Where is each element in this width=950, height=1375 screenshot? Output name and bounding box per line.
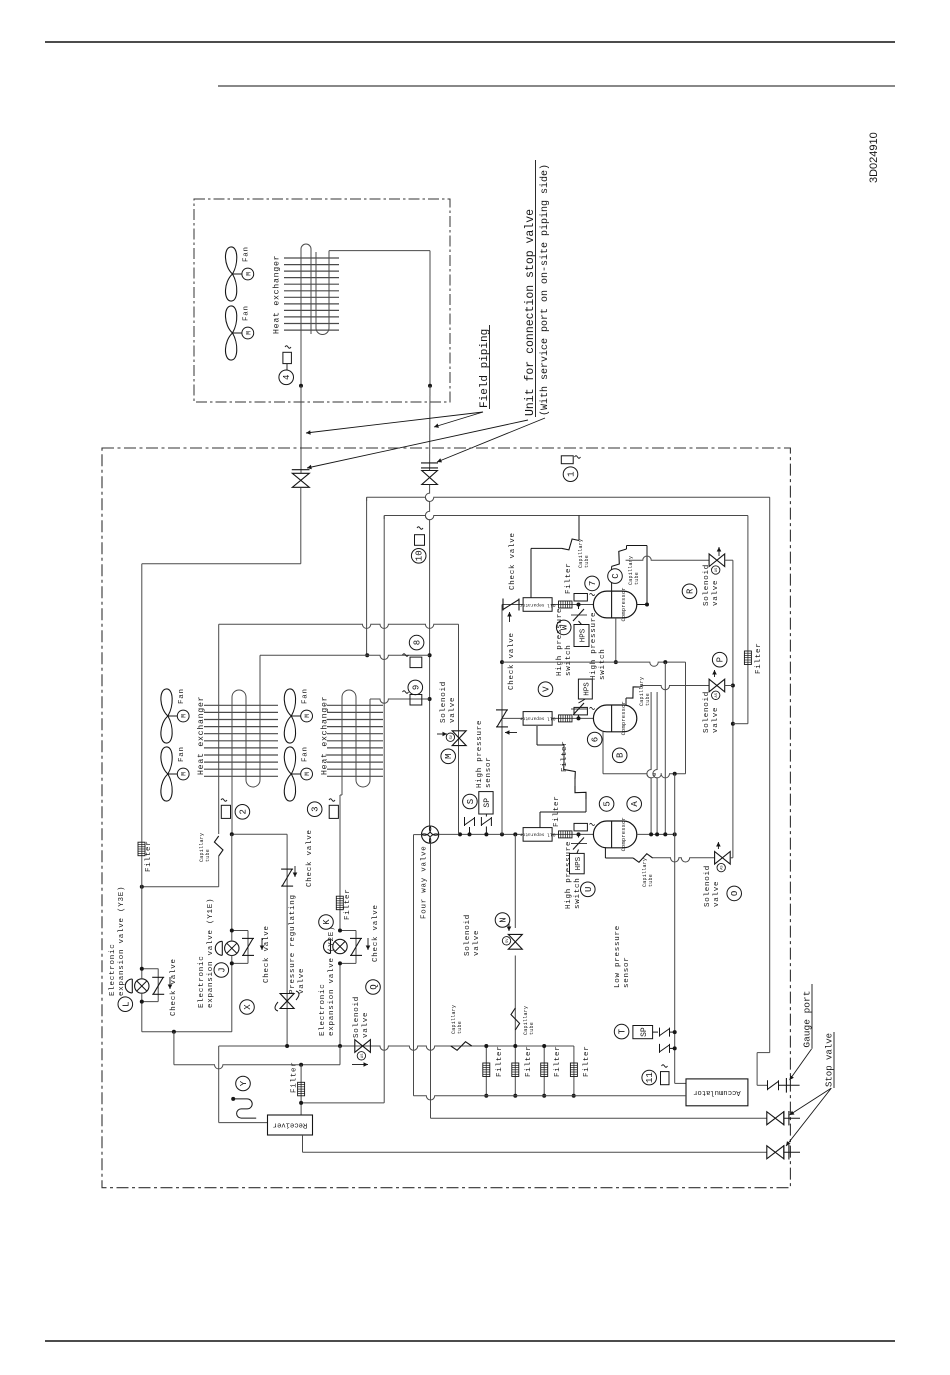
solenoid R feed pipe — [626, 556, 709, 560]
label pressure regulating valve — [289, 894, 306, 994]
riser from upper discharge pipe — [366, 497, 368, 655]
svg-text:sensor: sensor — [623, 956, 631, 988]
filter branch 3 — [541, 1044, 562, 1098]
right hx gas pipe — [370, 699, 430, 705]
solenoid N branch pipe — [514, 834, 516, 1095]
electronic expansion valve Y3E — [125, 969, 149, 1032]
field gas pipe to four way valve — [425, 485, 429, 826]
svg-text:Oil separator: Oil separator — [519, 602, 555, 608]
eev Y1E bypass check valve — [230, 929, 254, 966]
svg-text:Filter: Filter — [496, 1045, 504, 1077]
sensor circle 9 — [408, 680, 423, 695]
svg-text:M: M — [245, 272, 252, 276]
label stop valve — [825, 1032, 835, 1088]
svg-text:10: 10 — [415, 550, 425, 561]
sensor circle R — [682, 584, 697, 599]
compressor A — [593, 817, 636, 851]
svg-text:AS: AS — [715, 568, 719, 572]
indoor pipe junction dot right — [428, 384, 432, 388]
eev Y3E bypass check valve — [140, 967, 164, 1004]
arrow field piping to gas pipe — [434, 412, 483, 428]
suction stop valve pipe — [431, 1117, 767, 1119]
filter right branch — [744, 642, 763, 674]
solenoid valve R — [709, 547, 725, 574]
filter liquid line — [138, 840, 153, 872]
label filter C — [565, 562, 573, 594]
filter right hx — [336, 888, 352, 920]
sensor 10 thermistor — [415, 527, 425, 546]
right heat exchanger fins — [327, 705, 383, 776]
label capillary tube A — [642, 858, 654, 887]
indoor unit dash-dot box — [194, 199, 450, 402]
capillary tube A discharge — [605, 847, 652, 862]
svg-text:T: T — [618, 1028, 628, 1034]
svg-text:Fan: Fan — [178, 688, 186, 704]
feed header junction dot a — [458, 832, 462, 836]
indoor fan 1 — [225, 246, 253, 301]
compressor suction pipe B — [502, 717, 593, 719]
arrow stop valve 2 — [786, 1088, 831, 1146]
oil equalize riser — [685, 662, 687, 774]
sensor circle J — [214, 963, 229, 978]
page footer rule — [45, 1340, 895, 1342]
svg-text:3D024910: 3D024910 — [868, 132, 880, 183]
label Unit for connection stop valve — [524, 160, 551, 417]
svg-text:M: M — [444, 754, 454, 759]
svg-text:M: M — [181, 714, 188, 718]
svg-text:valve: valve — [298, 968, 306, 994]
compressor A suction right pipe — [637, 832, 677, 836]
svg-text:Electronic: Electronic — [109, 943, 117, 996]
left hx outlet pipe — [232, 833, 287, 835]
check valve compressor B — [496, 710, 517, 735]
svg-text:Low pressure: Low pressure — [614, 925, 622, 988]
svg-text:Y: Y — [239, 1080, 249, 1086]
filter branch pipe — [733, 516, 748, 724]
discharge header pipe — [501, 605, 503, 835]
riser from lower discharge pipe — [383, 516, 385, 1103]
label high pressure switch C — [590, 612, 607, 680]
svg-text:valve: valve — [362, 1012, 370, 1038]
svg-text:11: 11 — [645, 1072, 655, 1083]
label capillary tube C2 — [628, 556, 640, 585]
check valve compressor C — [503, 599, 519, 623]
svg-text:Check valve: Check valve — [306, 829, 314, 887]
svg-text:Compressor: Compressor — [621, 817, 627, 851]
svg-text:High pressure: High pressure — [476, 720, 484, 788]
svg-text:Check valve: Check valve — [372, 904, 380, 962]
sensor Y pigtail — [231, 1097, 256, 1118]
svg-text:HPS: HPS — [575, 856, 583, 870]
svg-text:S: S — [466, 799, 476, 804]
filter C — [559, 601, 573, 608]
outdoor fan 2 left — [161, 746, 189, 801]
indoor liquid pipe down — [300, 386, 302, 473]
oil return capillary C — [531, 516, 579, 599]
svg-text:Check valve: Check valve — [170, 958, 178, 1016]
liquid stop valve — [767, 1145, 800, 1160]
arrow stop valve label to liquid stop valve — [307, 420, 528, 469]
svg-text:(With service port on on-site: (With service port on on-site piping sid… — [539, 164, 551, 416]
label high pressure switch A — [565, 841, 582, 909]
label low pressure sensor — [614, 925, 631, 988]
pipe O to column — [730, 857, 733, 859]
svg-text:2: 2 — [238, 809, 248, 814]
solenoid valve Q — [352, 1040, 370, 1067]
feed header junction dot c — [484, 832, 488, 836]
svg-text:9: 9 — [411, 685, 421, 690]
svg-text:V: V — [542, 686, 552, 692]
filter branch 2 — [512, 1044, 533, 1098]
service port stub b — [465, 817, 475, 834]
sensor circle B — [612, 748, 627, 763]
gauge port symbol — [768, 1078, 800, 1093]
discharge pipe upper — [367, 497, 770, 501]
junction dot hps A — [577, 832, 581, 836]
svg-text:Filter: Filter — [554, 1045, 562, 1077]
svg-text:O: O — [730, 891, 740, 896]
junction dot receiver branch — [299, 1063, 303, 1067]
svg-text:valve: valve — [712, 707, 720, 733]
capillary riser c — [663, 662, 667, 836]
svg-text:Solenoid: Solenoid — [703, 691, 711, 733]
label capillary tube C1 — [578, 539, 590, 568]
receiver filter pipe — [299, 1065, 303, 1115]
suction accumulator small box C — [574, 593, 595, 601]
arrow stop valve label to gas stop valve — [437, 418, 545, 462]
svg-text:Oil separator: Oil separator — [519, 716, 555, 722]
indoor fan 2 — [225, 305, 253, 360]
svg-text:Check valve: Check valve — [509, 532, 517, 590]
svg-text:Heat exchanger: Heat exchanger — [196, 696, 206, 775]
gas pipe junction dot at header — [428, 653, 432, 657]
circle label W — [556, 620, 571, 635]
svg-text:7: 7 — [588, 581, 598, 586]
oil separator C — [519, 598, 555, 612]
outdoor unit dash-dot box — [102, 448, 790, 1188]
sensor circle 4 — [279, 370, 294, 385]
junction dot prv — [285, 1044, 289, 1048]
oil return capillary B — [537, 726, 575, 786]
label four way valve — [421, 845, 429, 919]
sensor circle 5 — [599, 797, 614, 812]
liquid line stop valve — [292, 470, 310, 488]
compressor B bottom pipe — [602, 732, 604, 774]
pressure regulating valve — [275, 991, 299, 1011]
svg-text:Oil separator: Oil separator — [519, 832, 555, 838]
svg-text:tube: tube — [584, 555, 590, 568]
arrow stop valve 1 — [790, 1088, 832, 1115]
svg-text:Solenoid: Solenoid — [704, 865, 712, 907]
sensor circle K — [319, 915, 334, 930]
svg-text:Filter: Filter — [525, 1045, 533, 1077]
oil separator A — [519, 828, 555, 842]
svg-text:K: K — [322, 919, 332, 925]
svg-text:Filter: Filter — [291, 1061, 299, 1093]
label check valve Y2E — [366, 904, 380, 962]
gas pipe junction dot at hx header — [428, 697, 432, 701]
capillary tube liquid line — [451, 1005, 472, 1051]
svg-text:C: C — [611, 573, 621, 579]
compressor C — [593, 587, 636, 621]
svg-text:Filter: Filter — [344, 888, 352, 920]
label solenoid valve N — [464, 914, 481, 956]
suction accumulator small box B — [574, 707, 595, 715]
circle label U — [581, 882, 596, 897]
electronic expansion valve Y2E — [324, 939, 348, 953]
svg-text:Fan: Fan — [243, 305, 251, 321]
solenoid P feed pipe — [643, 686, 709, 690]
receiver outlet pipe — [303, 1135, 767, 1152]
svg-text:valve: valve — [449, 697, 457, 723]
svg-text:4: 4 — [282, 375, 292, 380]
sensor circle 3 — [307, 802, 322, 817]
label solenoid valve M — [440, 681, 457, 723]
svg-text:expansion valve (Y2E): expansion valve (Y2E) — [328, 926, 336, 1036]
compressor C bottom pipe — [614, 618, 618, 664]
eev collect pipe — [142, 1030, 232, 1034]
junction dot discharge C — [500, 660, 504, 664]
label Field piping — [479, 325, 491, 409]
solenoid valve O — [715, 842, 731, 872]
svg-text:Four way valve: Four way valve — [421, 845, 429, 919]
svg-text:tube: tube — [645, 693, 651, 706]
sensor circle 10 — [411, 549, 426, 564]
sensor 1 thermistor — [561, 456, 580, 464]
left heat exchanger fins — [204, 705, 278, 776]
svg-text:Fan: Fan — [178, 746, 186, 762]
svg-text:1: 1 — [567, 471, 577, 476]
svg-text:tube: tube — [634, 572, 640, 585]
svg-text:sensor: sensor — [485, 756, 493, 788]
svg-text:tube: tube — [205, 849, 211, 862]
sensor 9 thermistor — [403, 691, 422, 705]
svg-text:SP: SP — [483, 798, 492, 808]
receiver inlet pipe — [219, 1046, 268, 1123]
suction stop valve — [767, 1111, 800, 1125]
svg-text:Compressor: Compressor — [621, 587, 627, 621]
svg-text:N: N — [499, 917, 509, 922]
svg-text:Check valve: Check valve — [263, 925, 271, 983]
sensor 8 thermistor — [403, 654, 422, 668]
left heat exchanger coil — [232, 690, 260, 834]
left hx liquid pipe — [218, 624, 220, 834]
svg-text:Filter: Filter — [565, 562, 573, 594]
solenoid O feed pipe — [653, 858, 715, 862]
gas header pipe — [260, 655, 430, 690]
indoor heat exchanger coil tubes — [301, 244, 329, 386]
arrow field piping to liquid pipe — [306, 412, 483, 435]
junction dot y2e — [338, 1044, 342, 1048]
svg-text:Pressure regulating: Pressure regulating — [289, 894, 297, 994]
label solenoid valve Q — [353, 996, 370, 1038]
svg-text:M: M — [245, 331, 252, 335]
filter B — [559, 715, 573, 722]
svg-text:switch: switch — [565, 644, 573, 676]
oil return pipe B — [603, 772, 686, 778]
indoor gas pipe down — [429, 386, 431, 471]
solenoid column pipe — [731, 560, 735, 858]
sensor circle A — [627, 797, 642, 812]
svg-text:switch: switch — [599, 648, 607, 680]
suction service port — [660, 1044, 677, 1053]
capillary riser b — [653, 692, 659, 836]
pipe R to column — [725, 559, 733, 561]
svg-text:Electronic: Electronic — [319, 983, 327, 1036]
svg-text:U: U — [584, 887, 594, 892]
suction collect pipe — [414, 1096, 687, 1100]
svg-text:Electronic: Electronic — [198, 955, 206, 1008]
capillary tube B discharge — [626, 686, 643, 706]
compressor suction pipe C — [502, 604, 593, 606]
svg-text:Filter: Filter — [583, 1045, 591, 1077]
page header rule 1 — [45, 41, 895, 43]
pipe P to column — [725, 685, 733, 687]
four way valve — [422, 826, 439, 843]
compressor B — [593, 701, 636, 735]
sensor circle 6 — [587, 732, 602, 747]
svg-text:R: R — [686, 588, 696, 594]
junction dot left hx outlet — [230, 832, 234, 836]
label solenoid valve O — [704, 865, 721, 907]
riser junction dot — [365, 653, 369, 657]
left hx capillary return pipe — [142, 886, 219, 888]
capillary tube C discharge — [612, 546, 649, 607]
left hx capillary tube — [199, 833, 223, 887]
svg-text:valve: valve — [712, 580, 720, 606]
capillary riser a — [647, 692, 653, 836]
label filter B — [561, 740, 569, 772]
svg-text:tube: tube — [457, 1021, 463, 1034]
svg-text:8: 8 — [413, 640, 423, 645]
label capillary tube B — [639, 677, 651, 706]
four way valve bottom pipe — [430, 843, 432, 1118]
compressor feed header — [439, 833, 594, 835]
solenoid valve M pipe — [458, 624, 460, 834]
svg-text:SP: SP — [640, 1027, 649, 1037]
label check valve B — [508, 632, 516, 690]
svg-text:A: A — [630, 801, 640, 807]
sensor circle O — [727, 886, 742, 901]
filter receiver — [291, 1061, 305, 1095]
sensor circle 8 — [409, 635, 424, 650]
high pressure switch A — [570, 834, 588, 873]
svg-text:High pressure: High pressure — [590, 612, 598, 680]
svg-text:expansion valve (Y1E): expansion valve (Y1E) — [207, 898, 215, 1008]
page header rule 2 — [218, 85, 895, 87]
right heat exchanger coil — [340, 690, 370, 795]
circle label V — [538, 682, 553, 697]
high pressure switch B — [571, 679, 592, 718]
capillary tube N branch — [511, 1006, 535, 1035]
label high pressure switch B — [556, 608, 573, 676]
sensor 3 thermistor — [329, 799, 338, 819]
svg-text:HPS: HPS — [580, 628, 588, 642]
indoor thermistor sensor — [283, 346, 292, 370]
liquid main line — [219, 1046, 574, 1050]
liquid pipe from stop valve — [142, 488, 301, 564]
indoor pipe junction dot left — [299, 384, 303, 388]
sensor circle L — [118, 997, 133, 1012]
liquid header to eev — [141, 564, 143, 969]
feed header junction dot b — [468, 832, 472, 836]
solenoid valve M — [437, 731, 466, 746]
suction sensor SP — [633, 1026, 677, 1039]
filter branch 1 — [483, 1044, 504, 1098]
svg-text:Heat exchanger: Heat exchanger — [272, 255, 282, 334]
label gauge port — [802, 984, 813, 1049]
indoor heat exchanger label — [272, 255, 282, 334]
svg-text:Solenoid: Solenoid — [464, 914, 472, 956]
check valve to receiver — [281, 829, 314, 1046]
svg-text:AS: AS — [361, 1054, 365, 1058]
svg-text:expansion valve (Y3E): expansion valve (Y3E) — [118, 886, 126, 996]
right hx liquid pipe — [339, 795, 341, 1046]
svg-text:M: M — [304, 772, 311, 776]
sensor circle Y — [236, 1076, 251, 1091]
left heat exchanger label — [196, 696, 206, 775]
svg-text:AS: AS — [715, 693, 719, 697]
svg-text:Heat exchanger: Heat exchanger — [320, 696, 330, 775]
receiver top pipe — [174, 1032, 340, 1069]
svg-text:P: P — [716, 657, 726, 662]
svg-text:Accumulator: Accumulator — [693, 1088, 740, 1096]
outdoor fan 1 right — [284, 688, 312, 743]
svg-text:Receiver: Receiver — [273, 1121, 308, 1129]
liquid cross-over pipe — [219, 624, 459, 628]
right heat exchanger label — [320, 696, 330, 775]
svg-text:valve: valve — [473, 930, 481, 956]
svg-text:Filter: Filter — [553, 795, 561, 827]
sensor circle X — [240, 1000, 255, 1015]
sensor 2 thermistor — [221, 799, 231, 819]
svg-text:Solenoid: Solenoid — [353, 996, 361, 1038]
svg-text:High pressure: High pressure — [556, 608, 564, 676]
oil return collect pipe — [301, 1102, 384, 1104]
svg-text:Fan: Fan — [243, 246, 251, 262]
svg-text:Check valve: Check valve — [508, 632, 516, 690]
accumulator — [686, 1079, 748, 1106]
svg-text:switch: switch — [574, 877, 582, 909]
sensor circle 11 — [642, 1070, 657, 1085]
sensor circle C — [608, 569, 623, 584]
indoor heat exchanger fins — [284, 258, 339, 330]
svg-text:Stop valve: Stop valve — [825, 1033, 835, 1087]
outdoor fan 1 left — [161, 688, 189, 743]
label solenoid valve P — [703, 691, 720, 733]
svg-text:valve: valve — [713, 881, 721, 907]
label filter A — [553, 795, 561, 827]
suction accumulator small box A — [574, 823, 595, 831]
svg-text:3: 3 — [311, 806, 321, 811]
drawing number 3D024910 — [868, 132, 880, 183]
four way valve left port pipe — [414, 835, 422, 1096]
receiver — [268, 1115, 313, 1135]
outdoor fan 2 right — [284, 746, 312, 801]
svg-text:Filter: Filter — [145, 840, 153, 872]
eev Y1E branch pipe — [231, 834, 233, 1032]
feed header junction dot e — [513, 832, 517, 836]
label electronic expansion valve Y3E — [109, 886, 126, 996]
svg-text:Fan: Fan — [302, 688, 310, 704]
label electronic expansion valve Y1E — [198, 898, 215, 1008]
sensor circle S — [463, 794, 478, 809]
label solenoid valve R — [703, 564, 720, 606]
gas line stop valve with service port — [421, 463, 438, 485]
sensor circle 1 — [563, 467, 578, 482]
feed header junction dot d — [500, 832, 504, 836]
svg-text:Gauge port: Gauge port — [802, 991, 813, 1048]
